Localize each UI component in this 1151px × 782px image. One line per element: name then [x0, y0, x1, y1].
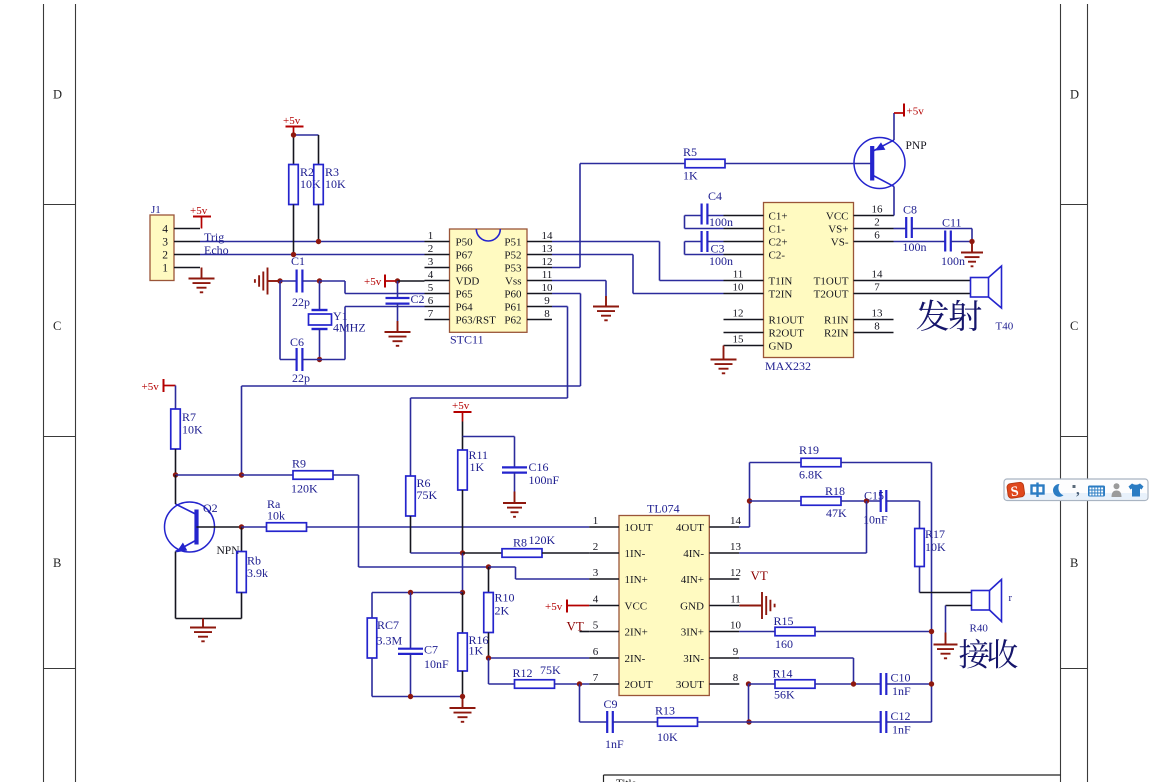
svg-text:1nF: 1nF: [892, 723, 911, 737]
wire R40 lower: [946, 605, 972, 607]
+5v power TL074: [566, 600, 568, 613]
svg-text:9: 9: [733, 646, 739, 658]
ground R16: [450, 697, 476, 722]
svg-text:9: 9: [544, 295, 550, 307]
svg-text:J1: J1: [151, 204, 161, 216]
node C10 vert: [929, 681, 934, 686]
wire node to R9: [176, 474, 242, 476]
svg-text:+5v: +5v: [283, 115, 301, 127]
wire P60 to Q2 node: [552, 293, 581, 295]
MAX232 pin C1+: [724, 215, 764, 217]
svg-text:C1: C1: [291, 254, 305, 268]
svg-text:10: 10: [730, 620, 742, 632]
MAX232 pin T2OUT: [854, 293, 894, 295]
wire R19 right: [841, 462, 932, 464]
svg-text:2: 2: [428, 243, 434, 255]
svg-text:C8: C8: [903, 203, 917, 217]
svg-text:120K: 120K: [291, 482, 318, 496]
svg-text:Q2: Q2: [203, 501, 218, 515]
+5v power R2R3: [286, 126, 304, 128]
ground C16: [514, 473, 516, 492]
svg-text:2K: 2K: [495, 604, 510, 618]
opamp U3 TL074: [619, 516, 709, 696]
svg-text:10K: 10K: [182, 423, 203, 437]
svg-text:VS-: VS-: [831, 237, 849, 249]
wire emitter to +5v: [893, 113, 895, 140]
svg-text:C12: C12: [891, 709, 911, 723]
capacitor C12: [880, 711, 882, 733]
pin 8 P62: [527, 319, 552, 321]
node R10 R12: [486, 655, 491, 660]
node R16 gnd: [460, 694, 465, 699]
svg-text:5: 5: [593, 620, 599, 632]
svg-text:T1IN: T1IN: [769, 276, 793, 288]
svg-text:R2OUT: R2OUT: [769, 328, 805, 340]
TL074 pin 11 GND: [709, 605, 739, 607]
node R15 vert: [929, 629, 934, 634]
svg-text:6: 6: [874, 230, 880, 242]
TL074 pin 7 2OUT: [589, 683, 619, 685]
node +5v-R2: [291, 132, 296, 137]
node C7 bottom: [408, 694, 413, 699]
capacitor C6: [280, 359, 297, 361]
svg-text:TL074: TL074: [647, 502, 680, 516]
svg-text:3.9k: 3.9k: [247, 566, 268, 580]
svg-text:C11: C11: [942, 216, 962, 230]
wire VCC up: [893, 215, 896, 217]
ground J1 pin1: [189, 268, 215, 293]
svg-text:C1+: C1+: [769, 211, 788, 223]
svg-text:R12: R12: [513, 666, 533, 680]
svg-text:15: 15: [733, 334, 745, 346]
TL074 pin 13 4IN-: [709, 552, 739, 554]
svg-text:75K: 75K: [417, 488, 438, 502]
wire T1OUT to T40: [894, 280, 971, 282]
pin 12 P53: [527, 267, 552, 269]
resistor R19: [750, 462, 802, 464]
text fa-she transmit: [917, 300, 949, 331]
svg-text:2: 2: [593, 541, 599, 553]
wire Vss to ground: [552, 280, 606, 282]
svg-text:RC7: RC7: [377, 618, 399, 632]
svg-text:R15: R15: [774, 614, 794, 628]
svg-text:B: B: [1070, 556, 1078, 570]
node R18 R19: [747, 498, 752, 503]
pin 1 P50: [425, 241, 450, 243]
svg-text:Title: Title: [616, 778, 637, 782]
svg-text:3IN-: 3IN-: [683, 653, 704, 665]
svg-text:P66: P66: [456, 263, 474, 275]
IME toolbar: [1004, 479, 1148, 501]
ground C2: [397, 304, 399, 322]
wire R18 to C15: [841, 500, 881, 502]
wire R17 to R40: [920, 592, 972, 594]
svg-text:14: 14: [730, 515, 742, 527]
MCU U1 STC11: [450, 229, 528, 332]
speaker T40: [971, 278, 989, 298]
+5v power PNP: [903, 104, 905, 117]
MAX232 pin R2IN: [854, 332, 894, 334]
svg-text:4IN+: 4IN+: [681, 574, 704, 586]
svg-text:12: 12: [542, 256, 553, 268]
svg-text:160: 160: [775, 637, 793, 651]
ground R40: [934, 633, 958, 659]
svg-text:P50: P50: [456, 237, 474, 249]
TL074 pin 2 1IN-: [589, 552, 619, 554]
svg-text:P53: P53: [504, 263, 522, 275]
svg-text:+5v: +5v: [142, 381, 160, 393]
svg-text:47K: 47K: [826, 506, 847, 520]
svg-text:1K: 1K: [469, 644, 484, 658]
MAX232 pin R2OUT: [724, 332, 764, 334]
node R2-Echo: [291, 252, 296, 257]
svg-text:2IN+: 2IN+: [625, 627, 648, 639]
svg-text:6: 6: [593, 646, 599, 658]
svg-text:R10: R10: [495, 591, 515, 605]
text jie-shou receive: [959, 639, 988, 669]
svg-text:1nF: 1nF: [605, 737, 624, 751]
wire 4IN- vert: [866, 501, 868, 553]
node C8 C11 gnd: [969, 239, 974, 244]
svg-text:2OUT: 2OUT: [625, 679, 653, 691]
wire R8 to 1IN-: [542, 552, 589, 554]
node R6 R8 R11: [460, 550, 465, 555]
svg-text:120K: 120K: [529, 533, 556, 547]
ground Q2: [190, 619, 216, 642]
node C1-Y1: [317, 278, 322, 283]
svg-text:GND: GND: [680, 601, 704, 613]
node base Ra Rb: [239, 524, 244, 529]
MAX232 pin T1OUT: [854, 280, 894, 282]
node C7 top: [408, 590, 413, 595]
svg-text:PNP: PNP: [906, 140, 927, 152]
pin 5 P65: [425, 293, 450, 295]
pin 2 P67: [425, 254, 450, 256]
svg-text:C9: C9: [604, 697, 618, 711]
svg-text:T2IN: T2IN: [769, 289, 793, 301]
svg-text:R1IN: R1IN: [824, 315, 849, 327]
MAX232 pin C1-: [724, 228, 764, 230]
svg-text:10K: 10K: [657, 730, 678, 744]
wire P51 to T1IN: [552, 241, 660, 243]
svg-text:10: 10: [733, 282, 745, 294]
svg-text:VCC: VCC: [625, 601, 648, 613]
svg-text:22p: 22p: [292, 295, 310, 309]
capacitor C9: [579, 684, 581, 722]
svg-text:1OUT: 1OUT: [625, 522, 653, 534]
transistor Q2 NPN: [165, 502, 215, 552]
resistor R13: [658, 718, 698, 727]
wire collector to VCC: [893, 187, 895, 216]
svg-text:VCC: VCC: [826, 211, 849, 223]
svg-text:3.3M: 3.3M: [377, 634, 403, 648]
wire C6 to pin6: [320, 359, 346, 361]
svg-text:P60: P60: [504, 289, 522, 301]
+5v power R7: [163, 379, 165, 392]
resistor R15: [739, 631, 775, 633]
svg-text:P62: P62: [504, 315, 521, 327]
svg-text:T1OUT: T1OUT: [814, 276, 849, 288]
svg-text:4: 4: [428, 269, 434, 281]
svg-text:C2: C2: [411, 292, 425, 306]
svg-text:7: 7: [593, 672, 599, 684]
wire R5 to base: [725, 163, 871, 165]
svg-text:R18: R18: [825, 484, 845, 498]
capacitor C8: [894, 228, 907, 230]
svg-text:1: 1: [428, 230, 434, 242]
wire to R12: [488, 658, 490, 684]
wire R10 to 2IN-: [489, 657, 590, 659]
svg-text:56K: 56K: [774, 688, 795, 702]
svg-text:13: 13: [542, 243, 554, 255]
pin 6 P64: [425, 306, 450, 308]
wire P53 to R5: [552, 267, 580, 269]
svg-text:R9: R9: [292, 457, 306, 471]
wire 4OUT up: [739, 526, 749, 528]
svg-text:4: 4: [593, 594, 599, 606]
resistor R11: [458, 450, 468, 490]
svg-text:C15: C15: [864, 489, 884, 503]
svg-text:8: 8: [874, 321, 880, 333]
svg-text:VT: VT: [751, 568, 768, 583]
node RC7 row: [460, 590, 465, 595]
svg-text:11: 11: [542, 269, 553, 281]
wire R15 right: [815, 631, 932, 633]
svg-text:VS+: VS+: [828, 224, 848, 236]
svg-text:VT: VT: [567, 619, 584, 634]
svg-text:GND: GND: [769, 341, 793, 353]
wire jog to 1IN+: [489, 566, 516, 568]
svg-text:C7: C7: [424, 643, 438, 657]
svg-text:MAX232: MAX232: [765, 359, 811, 373]
resistor R10: [488, 567, 490, 593]
svg-text:R8: R8: [513, 536, 527, 550]
resistor R17: [919, 501, 921, 529]
pin 14 P51: [527, 241, 552, 243]
TL074 pin 8 3OUT: [709, 683, 739, 685]
svg-text:7: 7: [874, 282, 880, 294]
wire Ra to 1OUT: [307, 526, 590, 528]
svg-text:1IN-: 1IN-: [625, 548, 646, 560]
svg-text:P65: P65: [456, 289, 474, 301]
wire emitter-Rb gnd: [176, 618, 242, 620]
svg-text:12: 12: [730, 567, 741, 579]
svg-text:C: C: [1070, 319, 1078, 333]
pin 3 P66: [425, 267, 450, 269]
node R18 C15 4IN-: [864, 498, 869, 503]
svg-text:14: 14: [542, 230, 554, 242]
svg-text:13: 13: [872, 308, 884, 320]
node R9 P60: [239, 472, 244, 477]
svg-text:3: 3: [593, 567, 599, 579]
wire P61 to R6: [552, 306, 568, 308]
resistor Ra: [242, 526, 267, 528]
svg-text:14: 14: [872, 269, 884, 281]
svg-text:+5v: +5v: [364, 276, 382, 288]
svg-text:3: 3: [428, 256, 434, 268]
MAX232 pin T2IN: [724, 293, 764, 295]
ground TL074 pin11: [739, 592, 774, 619]
wire R11 chain down: [462, 553, 464, 593]
IC U2 MAX232: [764, 203, 854, 358]
svg-text:,: ,: [1076, 482, 1080, 498]
MAX232 pin R1IN: [854, 319, 894, 321]
resistor R18: [750, 500, 802, 502]
svg-text:22p: 22p: [292, 371, 310, 385]
svg-text:Vss: Vss: [505, 276, 522, 288]
node R9 R10 jog: [486, 564, 491, 569]
node 3OUT R14: [746, 681, 751, 686]
svg-text:10nF: 10nF: [863, 513, 888, 527]
svg-text:+5v: +5v: [545, 601, 563, 613]
node R3-Trig: [316, 239, 321, 244]
svg-text:R19: R19: [799, 443, 819, 457]
wire 3IN- down: [739, 657, 853, 659]
title block: [604, 774, 1061, 776]
svg-text:+5v: +5v: [907, 106, 925, 118]
svg-text:75K: 75K: [540, 663, 561, 677]
svg-text:10: 10: [542, 282, 554, 294]
svg-text:4MHZ: 4MHZ: [333, 321, 366, 335]
resistor R9: [242, 474, 294, 476]
TL074 pin 3 1IN+: [589, 578, 619, 580]
wire branch C16: [463, 436, 515, 438]
wire +5v node: [294, 134, 319, 136]
+5v power R11: [454, 411, 472, 413]
svg-text:R14: R14: [773, 667, 793, 681]
svg-text:Trig: Trig: [204, 230, 224, 244]
resistor R6: [406, 476, 416, 516]
svg-text:3IN+: 3IN+: [681, 627, 704, 639]
svg-text:8: 8: [733, 672, 739, 684]
resistor R16: [462, 593, 464, 634]
transistor PNP: [854, 138, 905, 189]
svg-text:1: 1: [162, 263, 168, 275]
wire P52 to T2IN: [552, 254, 633, 256]
wire C1 to pin5: [320, 280, 346, 282]
MAX232 pin C2+: [724, 241, 764, 243]
MAX232 pin R1OUT: [724, 319, 764, 321]
svg-text:r: r: [1009, 593, 1013, 604]
svg-text:VDD: VDD: [456, 276, 480, 288]
ground MAX232 GND: [723, 346, 725, 349]
svg-text:C2-: C2-: [769, 250, 786, 262]
node VDD: [395, 278, 400, 283]
net VT pin5: [580, 631, 590, 633]
crystal Y1: [319, 281, 321, 310]
svg-text:6.8K: 6.8K: [799, 468, 823, 482]
MAX232 pin T1IN: [724, 280, 764, 282]
svg-text:3: 3: [162, 237, 168, 249]
svg-text:1K: 1K: [470, 460, 485, 474]
wire RC7 row: [372, 592, 463, 594]
ground left of C1: [255, 268, 280, 295]
TL074 pin 9 3IN-: [709, 657, 739, 659]
svg-text:5: 5: [428, 282, 434, 294]
wire gnd row: [372, 696, 463, 698]
svg-text:Echo: Echo: [204, 243, 229, 257]
svg-text:P51: P51: [504, 237, 521, 249]
svg-text:10k: 10k: [267, 509, 285, 523]
TL074 pin 1 1OUT: [589, 526, 619, 528]
resistor R3: [318, 135, 320, 165]
capacitor C11: [894, 241, 946, 243]
svg-text:3OUT: 3OUT: [676, 679, 704, 691]
wire ground rail: [279, 281, 281, 360]
capacitor C3: [685, 241, 702, 243]
svg-text:4IN-: 4IN-: [683, 548, 704, 560]
pin 13 P52: [527, 254, 552, 256]
pin 10 P60: [527, 293, 552, 295]
svg-text:P52: P52: [504, 250, 521, 262]
svg-text:2IN-: 2IN-: [625, 653, 646, 665]
svg-text:1nF: 1nF: [892, 684, 911, 698]
TL074 pin 10 3IN+: [709, 631, 739, 633]
svg-text:100n: 100n: [941, 254, 965, 268]
pin 7 P63/RST: [425, 319, 450, 321]
svg-text:C6: C6: [290, 335, 304, 349]
svg-text:6: 6: [428, 295, 434, 307]
node 2OUT C9: [577, 681, 582, 686]
TL074 pin 14 4OUT: [709, 526, 739, 528]
svg-text:P64: P64: [456, 302, 474, 314]
capacitor C7: [410, 593, 412, 649]
wire base: [197, 526, 242, 528]
+5v power J1: [193, 216, 211, 218]
svg-text:10nF: 10nF: [424, 657, 449, 671]
wire Echo: [200, 254, 425, 256]
svg-text:D: D: [53, 88, 62, 102]
connector J1: [150, 215, 174, 281]
resistor R5: [580, 163, 685, 165]
svg-text:2: 2: [874, 217, 880, 229]
svg-text:2: 2: [162, 250, 168, 262]
resistor Rb: [241, 527, 243, 552]
svg-text:R1OUT: R1OUT: [769, 315, 805, 327]
MAX232 pin C2-: [724, 254, 764, 256]
wire R6 to node: [411, 552, 463, 554]
capacitor C10: [880, 673, 882, 695]
svg-text:100n: 100n: [709, 254, 733, 268]
resistor RC7: [371, 593, 373, 619]
svg-text:4OUT: 4OUT: [676, 522, 704, 534]
resistor R12: [515, 680, 555, 689]
node R14 C10: [851, 681, 856, 686]
ground C8C11: [961, 242, 983, 267]
capacitor C4: [685, 215, 702, 217]
svg-text:10K: 10K: [925, 540, 946, 554]
MAX232 pin VS-: [854, 241, 894, 243]
pin 11 Vss: [527, 280, 552, 282]
node R7 collector: [173, 472, 178, 477]
svg-text:R40: R40: [970, 623, 989, 635]
resistor R14: [749, 683, 776, 685]
svg-text:10K: 10K: [300, 177, 321, 191]
node R13 C12 row: [746, 719, 751, 724]
svg-text:1: 1: [593, 515, 599, 527]
MAX232 pin GND: [724, 345, 764, 347]
svg-text:100n: 100n: [709, 215, 733, 229]
resistor R8: [463, 552, 503, 554]
capacitor C1: [280, 280, 297, 282]
capacitor C2: [397, 281, 399, 298]
svg-text:T40: T40: [996, 321, 1014, 333]
wire R9 to 1IN+: [333, 474, 359, 476]
svg-text:1K: 1K: [683, 169, 698, 183]
wire 3OUT down: [748, 684, 750, 722]
svg-text:+5v: +5v: [190, 205, 208, 217]
wire emitter: [175, 552, 177, 619]
